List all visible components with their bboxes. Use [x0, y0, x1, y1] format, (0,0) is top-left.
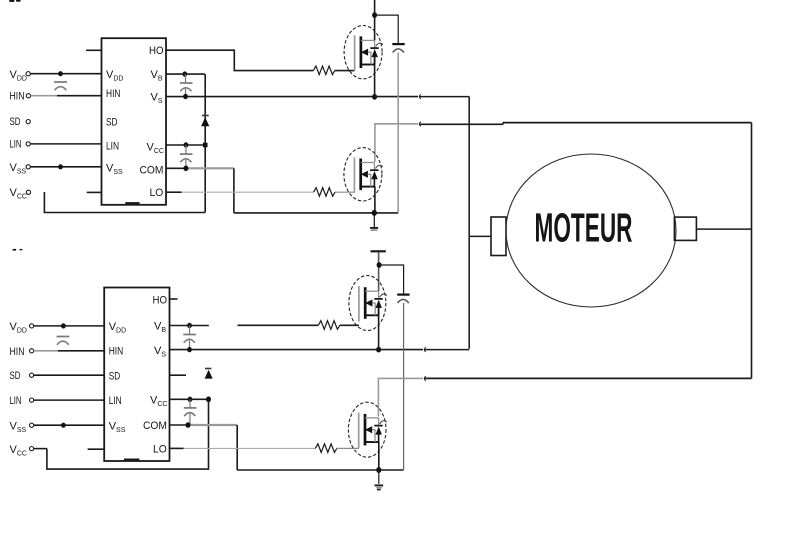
svg-text:COM: COM [143, 420, 167, 432]
IC U1 bottom notch mark [125, 202, 139, 205]
wire ground rail bottom half-bridge [237, 469, 403, 471]
wire VCC under-route (U1) [44, 192, 205, 213]
diode D2 (triangle) [205, 371, 212, 379]
ground symbol top half-bridge [370, 215, 378, 231]
junction dot VDD (U1) [58, 71, 63, 76]
svg-text:LIN: LIN [10, 395, 22, 407]
svg-text:SD: SD [106, 117, 118, 129]
terminal HIN (U1) open circle [26, 94, 30, 98]
svg-text:HIN: HIN [10, 91, 25, 103]
junction dot COM (U2) [186, 422, 191, 428]
wire SD terminal to U2 pin [34, 374, 105, 376]
terminal HIN (U2) open circle [30, 349, 34, 353]
junction dot top supply node [372, 12, 377, 18]
capacitor C6 bootstrap VB-VS (U2) [183, 326, 196, 350]
resistor R3 [318, 321, 339, 330]
unlabeled stub bottom-left of U2 [88, 448, 105, 450]
wire Q3 source to VS net [378, 308, 380, 350]
svg-text:SD: SD [10, 370, 21, 382]
svg-text:VSS: VSS [109, 421, 126, 435]
junction dot VSS (U2) [61, 423, 66, 428]
wire VSS terminal to U1 pin [30, 166, 101, 168]
IC U2 bottom notch mark [124, 458, 139, 461]
wire ground rail top half-bridge [234, 212, 398, 214]
svg-text:VDD: VDD [109, 321, 126, 335]
capacitor C7 VCC-COM (U2) [184, 399, 197, 425]
wire R4 to Q4 gate [337, 447, 359, 449]
supply bar bottom half-bridge [371, 250, 386, 252]
svg-text:VCC: VCC [147, 142, 164, 156]
wire Q2 drain to node B connector (gray) [375, 124, 418, 162]
wire HIN gray segment [31, 95, 57, 97]
wire HIN black segment to U1 [57, 95, 102, 97]
stray mark mid left [13, 249, 23, 251]
wire Q1 source to VS net [374, 57, 376, 97]
node A connector mark (VS U1) [419, 94, 421, 99]
junction dot VB (U1) [182, 71, 187, 76]
diode D2 (cathode bar) [205, 368, 212, 370]
MOSFET Q3 [349, 276, 387, 331]
resistor R2 [314, 188, 335, 197]
junction dot Q1 source on VS net [372, 94, 377, 100]
wire HO (U2) stub [170, 298, 178, 300]
wire R2 to Q2 gate [335, 191, 354, 193]
resistor R4 [315, 444, 336, 453]
ground symbol bottom half-bridge [375, 472, 384, 490]
wire Q4 drain to node B connector (gray) [378, 378, 423, 416]
terminal VDD (U2) open circle [30, 324, 34, 328]
unlabeled stub bottom-left of U1 [87, 191, 102, 193]
svg-text:LIN: LIN [10, 139, 22, 151]
motor M1 left terminal box [491, 217, 506, 256]
terminal LIN (U2) open circle [30, 398, 34, 402]
svg-text:HIN: HIN [106, 88, 121, 100]
wire C4 gray return to ground rail [397, 53, 399, 213]
wire node B bottom line to right leg [425, 377, 752, 379]
wire C8 return to ground rail [403, 303, 405, 470]
wire COM down to ground rail [233, 168, 235, 213]
wire LIN terminal to U2 pin [34, 399, 105, 401]
svg-text:COM: COM [140, 165, 164, 177]
wire LIN terminal to U1 pin [30, 143, 101, 145]
terminal VSS (U2) open circle [30, 423, 34, 427]
wire bootstrap vertical VB to VCC rail (U1) [204, 74, 206, 212]
svg-text:LIN: LIN [109, 395, 122, 407]
svg-text:VS: VS [154, 345, 166, 359]
svg-text:VCC: VCC [150, 395, 167, 409]
wire COM gray segment (U2) [188, 424, 237, 426]
wire COM down to ground rail (U2) [236, 425, 238, 470]
wire gate line to R3 [238, 324, 319, 326]
wire supply node to capacitor C4 [375, 15, 399, 43]
svg-text:HIN: HIN [10, 346, 25, 358]
svg-text:VSS: VSS [10, 162, 27, 176]
MOSFET Q4 [348, 402, 387, 457]
wire VDD terminal to U2 pin [34, 325, 105, 327]
driver IC U1 body [102, 38, 167, 205]
unlabeled stub top-left of U1 [86, 49, 101, 51]
terminal VSS (U1) open circle [26, 165, 30, 169]
wire HO (U1) to gate resistor R1 [166, 50, 313, 70]
capacitor C4 half-bridge decoupling (top) [392, 44, 404, 52]
svg-text:SD: SD [109, 371, 121, 383]
wire VCC under-route (U2) [47, 399, 209, 469]
terminal SD (U2) open circle [30, 373, 34, 377]
junction dot Q2 source on ground rail [372, 210, 377, 216]
wire R1 to Q1 gate [335, 70, 355, 72]
terminal SD (U1) open circle [26, 120, 30, 124]
junction dot VB (U2) [187, 323, 192, 328]
wire R3 to Q3 gate [340, 324, 359, 326]
MOSFET Q2 [344, 148, 383, 201]
wire VDD terminal to U1 pin [30, 73, 101, 75]
terminal LIN (U1) open circle [26, 142, 30, 146]
svg-text:VS: VS [151, 92, 163, 106]
junction dot VSS (U1) [58, 164, 63, 169]
wire LO gray net to R2 [182, 191, 314, 193]
MOSFET Q1 [344, 26, 383, 79]
node B connector mark (Q2 drain) [419, 122, 421, 127]
junction dot VS at C2 [183, 94, 188, 99]
wire Q3 drain node to capacitor C8 [379, 265, 404, 294]
wire Q2 source to ground rail [374, 187, 376, 213]
wire VCC (U1) pin to bootstrap rail [166, 144, 205, 146]
junction square dot VCC rail (U1) [203, 143, 208, 148]
junction dot VCC rail (U2) [206, 396, 211, 402]
junction dot Q4 source on ground rail [376, 467, 381, 473]
terminal VDD (U1) open circle [26, 72, 30, 76]
svg-text:HO: HO [153, 295, 168, 307]
capacitor C3 VCC-COM (U1) [180, 145, 193, 168]
wire VCC terminal stub (U2) [34, 448, 47, 450]
svg-text:VDD: VDD [106, 69, 123, 83]
capacitor C5 (VDD decoupling U2) [57, 337, 70, 345]
motor M1 left lead [469, 235, 491, 237]
wire COM gray segment [186, 167, 234, 169]
node B connector mark (Q4 drain) [424, 376, 426, 381]
svg-text:LO: LO [153, 444, 167, 456]
junction dot Q3 source on VS net [376, 347, 381, 353]
svg-text:SD: SD [10, 116, 21, 128]
junction dot VCC (U1) [184, 142, 189, 147]
junction dot VDD (U2) [61, 323, 66, 328]
svg-text:HIN: HIN [109, 346, 124, 358]
svg-text:VCC: VCC [10, 444, 27, 458]
driver IC U2 body [104, 288, 169, 462]
wire VS (U1) long net to node A connector [166, 96, 418, 98]
wire node A bottom line to left leg [425, 349, 470, 351]
capacitor C2 bootstrap VB-VS (U1) [180, 74, 193, 96]
wire node A vertical leg [468, 97, 470, 349]
wire LO gray net to R4 [184, 447, 316, 449]
terminal VCC (U2) open circle [30, 447, 34, 451]
wire VSS terminal to U2 pin [34, 424, 105, 426]
wire COM (U1) pin stub [166, 167, 186, 169]
wire supply bar to Q3 drain [378, 252, 380, 291]
wire Q4 source to ground rail [378, 442, 380, 470]
svg-text:HO: HO [149, 45, 164, 57]
junction dot VS at C6 [187, 347, 192, 352]
diode D1 bootstrap (triangle) [202, 118, 209, 126]
wire VB (U1) to bootstrap node [166, 73, 205, 75]
wire LO (U1) pin stub [166, 191, 182, 193]
wire VS (U2) long net to node A connector [170, 349, 424, 351]
svg-text:LO: LO [150, 187, 164, 199]
terminal VCC (U1) open circle [26, 190, 30, 194]
svg-text:VB: VB [151, 69, 163, 83]
wire HIN gray segment (U2) [34, 350, 58, 352]
wire node B vertical leg [751, 123, 753, 379]
resistor R1 [313, 66, 334, 75]
svg-text:VB: VB [154, 321, 166, 335]
wire COM (U2) pin stub [170, 424, 189, 426]
svg-text:VCC: VCC [10, 187, 27, 201]
wire node B top line to right leg [420, 123, 752, 125]
svg-text:VSS: VSS [106, 163, 123, 177]
diode D1 bootstrap (cathode bar) [202, 115, 209, 117]
wire SD (U2) stub right [170, 374, 187, 376]
capacitor C1 (VDD decoupling U1) [54, 82, 67, 90]
motor M1 right lead [696, 228, 751, 230]
junction dot VCC (U2) [188, 397, 193, 402]
wire LO (U2) pin stub [170, 447, 184, 449]
svg-text:VDD: VDD [10, 321, 27, 335]
svg-text:LIN: LIN [106, 141, 119, 153]
node A connector mark (VS U2) [424, 347, 426, 352]
junction dot COM (U1) [183, 166, 188, 172]
stray mark top left [9, 0, 20, 2]
wire VB (U2) stub net [170, 325, 209, 327]
wire node A to left leg [420, 96, 470, 98]
wire VCC (U2) pin net [170, 398, 209, 400]
motor M1 right terminal box [674, 217, 696, 240]
svg-text:VSS: VSS [10, 421, 27, 435]
wire top supply to Q1 drain [374, 0, 376, 40]
svg-text:VDD: VDD [10, 69, 27, 83]
motor M1 body [506, 154, 676, 307]
junction dot Q3 drain node [377, 262, 382, 268]
wire HIN black segment to U2 [58, 350, 104, 352]
capacitor C8 half-bridge decoupling (bottom) [397, 295, 409, 303]
svg-text:MOTEUR: MOTEUR [535, 205, 633, 251]
